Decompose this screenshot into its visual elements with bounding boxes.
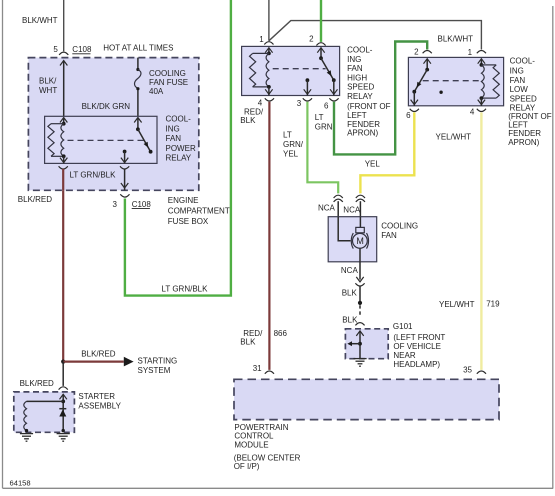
relay box - cooling fan high speed relay	[242, 46, 340, 95]
svg-text:RELAY: RELAY	[347, 92, 373, 101]
svg-text:2: 2	[414, 48, 419, 57]
svg-text:NCA: NCA	[318, 204, 336, 213]
svg-text:MODULE: MODULE	[234, 440, 268, 449]
label G101 location	[393, 333, 445, 369]
LS relay coil input pin 1	[478, 59, 485, 67]
label LT GRN/ YEL	[283, 131, 304, 159]
wire NCA left to fan box	[337, 201, 339, 217]
svg-text:BLK: BLK	[240, 338, 256, 347]
wire motor to fan box bottom	[359, 248, 361, 262]
label BLK/RED (below box)	[18, 195, 52, 204]
G101 branch arrow left	[347, 341, 360, 346]
engine compartment fuse box	[28, 58, 198, 191]
label G101	[393, 322, 413, 331]
svg-text:HOT AT ALL TIMES: HOT AT ALL TIMES	[103, 43, 173, 52]
wire from hot bus to fuse	[137, 58, 139, 69]
svg-text:BLK/WHT: BLK/WHT	[22, 16, 58, 25]
svg-text:BLK/: BLK/	[39, 77, 57, 86]
label POWERTRAIN CONTROL MODULE	[234, 423, 288, 450]
starter solenoid coil	[24, 401, 28, 432]
wire BLK/RED fuse box to splice	[62, 190, 64, 361]
label YEL/WHT 719 (bottom)	[439, 300, 500, 309]
label BLK/RED (branch)	[81, 349, 115, 358]
label (FRONT OF LEFT FENDER APRON) HS	[347, 102, 391, 137]
power relay switch input	[134, 118, 141, 132]
wire LT GRN from top to HS relay pin 2	[320, 0, 322, 42]
label BLK/ WHT (in box)	[39, 77, 57, 96]
powertrain control module box	[234, 379, 499, 419]
label HOT AT ALL TIMES	[103, 43, 173, 52]
connector LS relay pin 2	[414, 48, 432, 57]
svg-text:YEL: YEL	[365, 160, 381, 169]
HS relay switch input pin 2	[317, 48, 324, 60]
splice node BLK/RED	[61, 360, 65, 364]
HS relay coil output pin 4	[258, 87, 274, 108]
wire LT GRN HS pin 6 to LS pin 2	[334, 42, 427, 155]
cooling fan box	[328, 217, 377, 262]
svg-text:40A: 40A	[149, 87, 164, 96]
wire RED/BLK HS pin 4 to PCM pin 31	[268, 102, 270, 370]
wire BLK dashed continuation	[359, 305, 361, 317]
label COOLING FAN LOW SPEED RELAY	[510, 57, 537, 113]
svg-text:SYSTEM: SYSTEM	[138, 366, 171, 375]
svg-text:ING: ING	[166, 124, 180, 133]
svg-text:BLK: BLK	[342, 315, 358, 324]
svg-text:4: 4	[470, 108, 475, 117]
svg-text:NCA: NCA	[341, 266, 359, 275]
svg-text:SPEED: SPEED	[347, 83, 374, 92]
HS relay dashed link	[273, 68, 326, 70]
connector NCA (right)	[343, 195, 365, 214]
svg-text:(FRONT OF: (FRONT OF	[347, 102, 391, 111]
svg-text:ING: ING	[347, 55, 361, 64]
label (FRONT OF LEFT FENDER APRON) LS	[508, 112, 552, 147]
svg-text:BLK/RED: BLK/RED	[81, 349, 115, 358]
svg-text:YEL/WHT: YEL/WHT	[436, 132, 472, 141]
HS relay coil parallel resistor	[250, 53, 271, 88]
label LT GRN	[315, 113, 333, 131]
LS relay coil parallel resistor	[480, 65, 500, 100]
label BLK/WHT (to LS relay)	[438, 35, 474, 44]
svg-text:STARTER: STARTER	[78, 392, 115, 401]
LS relay switch input pin 2	[424, 59, 431, 72]
wire YEL/WHT LS pin 4 to PCM pin 35	[480, 112, 482, 370]
svg-text:FAN: FAN	[381, 231, 397, 240]
svg-text:6: 6	[406, 111, 411, 120]
label BLK (lower)	[342, 315, 358, 324]
label RED/ BLK 866 (bottom)	[240, 329, 287, 347]
connector LS relay pin 1	[468, 48, 486, 57]
label BLK/DK GRN	[82, 102, 131, 111]
starter internal input wire	[60, 394, 67, 430]
svg-text:APRON): APRON)	[508, 138, 539, 147]
label COOLING FAN HIGH SPEED RELAY	[347, 46, 374, 102]
svg-text:LT GRN/BLK: LT GRN/BLK	[70, 170, 117, 179]
HS relay pin 6 wire	[324, 80, 339, 110]
power relay coil parallel resistor	[48, 124, 66, 159]
svg-text:COOLING: COOLING	[381, 222, 418, 231]
svg-text:HEADLAMP): HEADLAMP)	[393, 360, 440, 369]
HS relay pin 3 contact and wire	[297, 78, 312, 108]
wire fan box right to motor top	[359, 217, 361, 228]
power relay dashed link	[68, 139, 144, 141]
svg-text:COOL-: COOL-	[347, 46, 373, 55]
label STARTING SYSTEM	[138, 356, 178, 374]
svg-text:G101: G101	[393, 322, 413, 331]
ground under starter	[57, 434, 70, 442]
wire NCA right to fan box	[359, 201, 361, 217]
svg-text:COOL-: COOL-	[510, 57, 536, 66]
wire splice to starter assembly	[62, 362, 64, 386]
inline connector below fan	[355, 277, 364, 286]
connector at G101	[355, 323, 364, 326]
svg-text:FAN FUSE: FAN FUSE	[149, 78, 188, 87]
label COOLING FAN	[381, 222, 418, 240]
svg-text:COOL-: COOL-	[166, 115, 192, 124]
svg-text:BLK: BLK	[342, 289, 358, 298]
label COOLING FAN POWER RELAY	[166, 115, 196, 163]
svg-text:FUSE BOX: FUSE BOX	[168, 217, 209, 226]
splice node	[358, 301, 362, 305]
svg-text:FENDER: FENDER	[508, 129, 541, 138]
svg-text:CONTROL: CONTROL	[234, 431, 274, 440]
svg-text:LT: LT	[283, 131, 292, 140]
HS relay coil (inductor)	[266, 53, 269, 87]
LS relay dashed link	[423, 80, 480, 82]
G101 internal wire	[356, 331, 363, 358]
svg-text:COMPARTMENT: COMPARTMENT	[168, 206, 230, 215]
wire LT GRN/BLK from C108-3 down, right and up off page	[125, 0, 231, 296]
relay box - cooling fan power relay	[45, 116, 157, 163]
wire BLK fan to inline connector	[359, 262, 361, 280]
svg-text:HIGH: HIGH	[347, 73, 367, 82]
svg-text:ENGINE: ENGINE	[168, 196, 199, 205]
label BLK (upper)	[342, 289, 358, 298]
svg-text:OF I/P): OF I/P)	[234, 462, 260, 471]
connector at starter assembly	[59, 387, 68, 390]
svg-text:6: 6	[324, 102, 329, 111]
svg-text:C108: C108	[72, 45, 92, 54]
connector C108 pin 3	[112, 194, 129, 209]
ground under solenoid	[20, 434, 33, 442]
svg-text:M: M	[356, 236, 364, 246]
svg-text:FAN: FAN	[166, 134, 182, 143]
svg-text:APRON): APRON)	[347, 129, 378, 138]
svg-text:LT GRN/BLK: LT GRN/BLK	[162, 285, 209, 294]
svg-text:GRN: GRN	[315, 123, 333, 132]
starter assembly box	[14, 392, 75, 432]
svg-text:(LEFT FRONT: (LEFT FRONT	[393, 333, 445, 342]
svg-text:ING: ING	[510, 67, 524, 76]
svg-text:719: 719	[486, 300, 500, 309]
svg-text:FAN: FAN	[347, 64, 363, 73]
svg-text:FENDER: FENDER	[347, 120, 380, 129]
motor M1 cooling fan motor	[351, 227, 368, 248]
relay box - cooling fan low speed relay	[408, 57, 503, 105]
svg-text:64158: 64158	[10, 479, 31, 488]
svg-text:NCA: NCA	[343, 205, 361, 214]
svg-text:1: 1	[259, 35, 264, 44]
wire YEL LS pin 6 to fan	[360, 112, 414, 193]
LS relay floating contact	[439, 91, 442, 94]
connector PCM pin 31	[253, 364, 274, 374]
HS relay switch arm	[321, 58, 336, 82]
label BLK/WHT	[22, 16, 58, 25]
wire BLK/WHT inside fuse box	[60, 61, 67, 117]
label (BELOW CENTER OF I/P)	[234, 453, 301, 471]
wire BLK connector to splice	[359, 286, 361, 303]
svg-text:LOW: LOW	[510, 85, 529, 94]
wire fuse to relay switch	[137, 90, 139, 116]
svg-text:GRN/: GRN/	[283, 140, 304, 149]
svg-text:NEAR: NEAR	[393, 351, 415, 360]
label YEL/WHT (top)	[436, 132, 472, 141]
LS relay switch arm	[412, 70, 427, 94]
svg-text:LT: LT	[315, 113, 324, 122]
svg-text:4: 4	[258, 99, 263, 108]
arrow to STARTING SYSTEM	[124, 357, 134, 367]
svg-text:WHT: WHT	[39, 86, 57, 95]
svg-text:FAN: FAN	[510, 76, 526, 85]
svg-text:COOLING: COOLING	[149, 69, 186, 78]
connector HS relay pin 2	[309, 34, 326, 45]
HS relay coil input	[265, 48, 272, 56]
label BLK/RED (at starter)	[20, 379, 54, 388]
svg-text:POWER: POWER	[166, 144, 196, 153]
label RED/ BLK (top)	[240, 107, 264, 125]
svg-text:SPEED: SPEED	[510, 94, 537, 103]
ground distribution box G101	[345, 329, 388, 359]
power relay coil input wire	[60, 118, 67, 126]
svg-text:31: 31	[253, 364, 262, 373]
svg-text:YEL/WHT: YEL/WHT	[439, 300, 475, 309]
wire BLK/RED to starting system	[63, 361, 124, 363]
label COOLING FAN FUSE 40A	[149, 69, 188, 96]
wire BLK/WHT HS pin1 to LS pin1	[269, 21, 482, 50]
power relay switch contact to pin	[120, 150, 129, 169]
label YEL	[365, 160, 381, 169]
label NCA (below fan)	[341, 266, 359, 275]
svg-text:ASSEMBLY: ASSEMBLY	[78, 402, 121, 411]
starter solenoid branch wire	[27, 400, 64, 402]
label ENGINE COMPARTMENT FUSE BOX	[168, 196, 230, 226]
starter main node	[62, 429, 65, 432]
label C108 (top)	[72, 45, 92, 54]
svg-text:BLK/DK GRN: BLK/DK GRN	[82, 102, 131, 111]
svg-text:5: 5	[53, 45, 58, 54]
svg-text:1: 1	[468, 48, 473, 57]
wire BLK/WHT from top to HS relay pin 1	[268, 0, 270, 41]
svg-text:BLK: BLK	[240, 116, 256, 125]
diagram number 64158	[10, 479, 31, 488]
wire fan box left to motor	[338, 217, 350, 241]
LS relay pin 6 wire	[406, 92, 419, 120]
label LT GRN/BLK (run)	[162, 285, 209, 294]
svg-text:OF VEHICLE: OF VEHICLE	[393, 342, 441, 351]
svg-text:C108: C108	[132, 200, 152, 209]
svg-text:STARTING: STARTING	[138, 356, 178, 365]
svg-text:BLK/RED: BLK/RED	[20, 379, 54, 388]
power relay coil output to BLK/RED	[59, 156, 68, 169]
svg-text:RELAY: RELAY	[166, 154, 192, 163]
power relay coil (inductor)	[61, 124, 64, 157]
svg-text:YEL: YEL	[283, 150, 299, 159]
wire relay to C108 pin 3	[121, 169, 128, 191]
wire LT GRN/YEL HS pin 3 to fan	[307, 102, 338, 194]
connector NCA (left)	[318, 195, 343, 212]
label C108 (bottom)	[132, 200, 152, 209]
LS relay coil output pin 4	[470, 98, 486, 116]
wire BLK/WHT from top to C108 pin 5	[63, 0, 65, 51]
connector PCM pin 35	[463, 365, 486, 374]
svg-text:3: 3	[112, 200, 117, 209]
svg-text:35: 35	[463, 365, 472, 374]
connector HS relay pin 1	[259, 35, 273, 45]
svg-text:3: 3	[297, 99, 302, 108]
svg-text:866: 866	[274, 329, 288, 338]
LS relay coil (inductor)	[481, 65, 484, 98]
wire BLK/RED inside fuse box	[62, 169, 64, 191]
svg-text:BLK/WHT: BLK/WHT	[438, 35, 474, 44]
svg-text:LEFT: LEFT	[347, 111, 367, 120]
svg-text:2: 2	[309, 34, 314, 43]
label LT GRN/BLK (in box)	[70, 170, 117, 179]
connector C108 pin 5	[53, 45, 68, 55]
power relay switch arm	[138, 129, 153, 153]
starter diode D1	[59, 409, 66, 417]
ground G101	[353, 359, 366, 367]
fuse COOLING FAN FUSE 40A	[135, 68, 141, 90]
svg-text:BLK/RED: BLK/RED	[18, 195, 52, 204]
label STARTER ASSEMBLY	[78, 392, 121, 411]
